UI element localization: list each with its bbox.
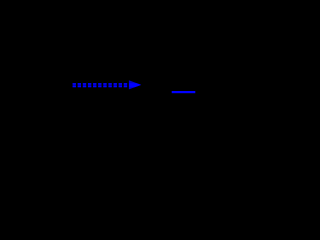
wire: dashed double-line arrow shaft bbox=[73, 84, 128, 87]
wire: solid horizontal line bbox=[172, 91, 196, 93]
arrowhead bbox=[129, 80, 141, 89]
